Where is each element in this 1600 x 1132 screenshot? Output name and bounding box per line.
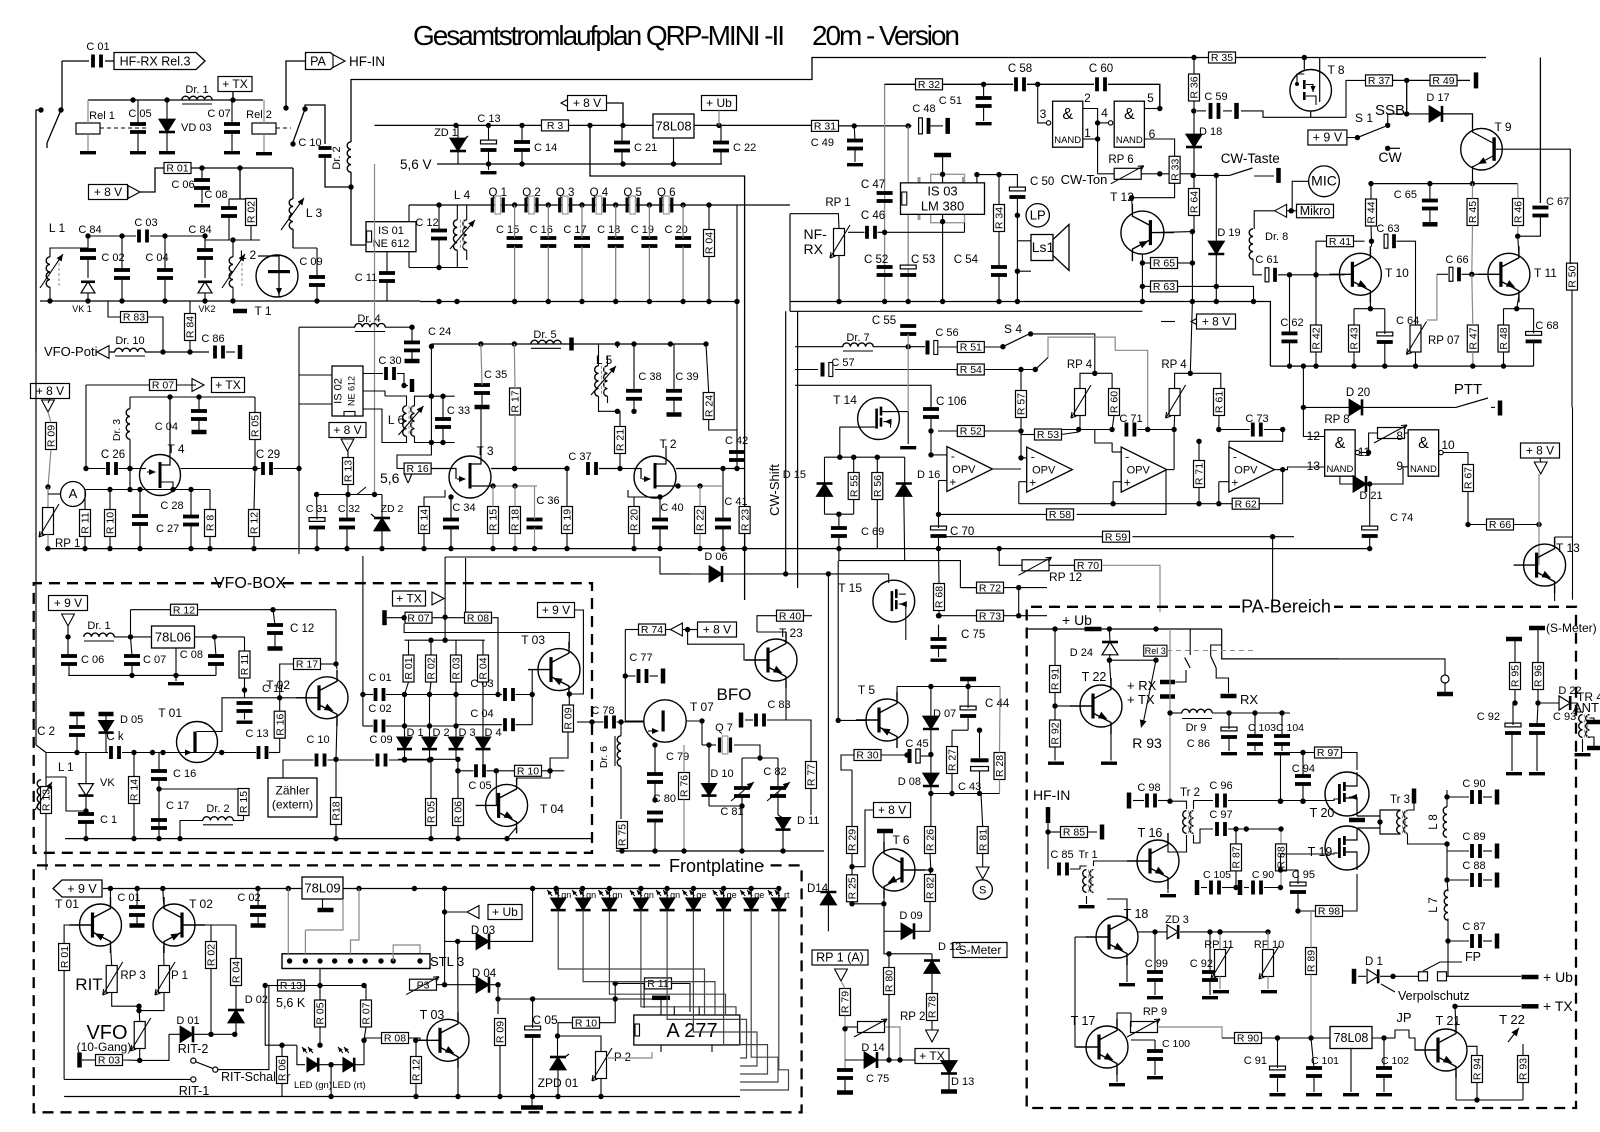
wire bias rail — [1371, 183, 1518, 185]
wire — [292, 168, 294, 199]
flag + 9 V — [1308, 130, 1347, 145]
svg-text:R 59: R 59 — [1105, 531, 1127, 543]
wire T03 base — [531, 670, 533, 725]
svg-text:C 51: C 51 — [939, 95, 962, 107]
ground — [1376, 1093, 1392, 1096]
resistor R 79 — [840, 989, 851, 1016]
svg-text:C 59: C 59 — [1204, 91, 1227, 103]
svg-text:R 07: R 07 — [152, 380, 174, 392]
svg-text:C 54: C 54 — [954, 254, 979, 266]
svg-text:L 1: L 1 — [58, 762, 74, 774]
svg-text:R 08: R 08 — [384, 1033, 406, 1045]
svg-text:+ 9 V: + 9 V — [54, 596, 82, 610]
svg-text:C 14: C 14 — [534, 142, 557, 154]
flag + 8 V — [89, 185, 128, 200]
svg-text:R 09: R 09 — [563, 707, 575, 729]
svg-text:Q 7: Q 7 — [715, 722, 733, 734]
svg-text:78L06: 78L06 — [155, 630, 191, 645]
nand gate 8 9 — [1408, 430, 1439, 476]
wire TX bus — [1270, 365, 1533, 367]
wire — [1229, 430, 1283, 459]
svg-text:L 4: L 4 — [454, 188, 471, 202]
ground — [1202, 996, 1218, 999]
svg-text:LM 380: LM 380 — [921, 199, 964, 214]
wire — [620, 767, 622, 820]
svg-text:C 100: C 100 — [1162, 1038, 1190, 1050]
potentiometer RP 3 — [106, 966, 117, 993]
arrow — [976, 867, 989, 879]
svg-text:+ 9 V: + 9 V — [1313, 131, 1343, 145]
svg-text:JP: JP — [1396, 1010, 1411, 1025]
wire signal — [491, 468, 567, 470]
wire — [925, 869, 931, 871]
svg-text:D 02: D 02 — [245, 994, 268, 1006]
wire — [1555, 536, 1573, 538]
ground — [80, 151, 96, 154]
ground — [1270, 1093, 1286, 1096]
svg-text:C 96: C 96 — [1209, 780, 1232, 792]
svg-text:R 13: R 13 — [343, 460, 355, 482]
flag + 9 V key — [538, 603, 575, 618]
wire bias — [404, 624, 569, 648]
svg-text:&: & — [1124, 106, 1135, 123]
tick — [521, 1105, 543, 1110]
resistor R 13 — [343, 458, 354, 485]
resistor R 35 — [1209, 52, 1236, 63]
wire — [1254, 211, 1274, 229]
svg-text:R 20: R 20 — [629, 509, 641, 531]
resistor R 37 — [1366, 75, 1393, 86]
resistor R 58 — [1047, 509, 1074, 520]
wire bus vfo — [65, 838, 592, 840]
svg-text:C 103: C 103 — [1248, 722, 1276, 734]
svg-text:Ls1: Ls1 — [1032, 239, 1055, 255]
wire — [319, 969, 321, 1000]
svg-text:C 75: C 75 — [961, 629, 985, 641]
wire bus fp — [64, 1096, 740, 1098]
wire — [129, 469, 131, 490]
resistor R 24 — [703, 393, 714, 420]
wire led route — [558, 911, 704, 1016]
svg-text:C 02: C 02 — [101, 252, 124, 264]
wire — [1219, 481, 1229, 483]
svg-text:R18: R18 — [331, 801, 343, 820]
wire vfo out — [362, 556, 364, 726]
svg-text:R 89: R 89 — [1306, 950, 1318, 972]
wire — [1397, 241, 1416, 324]
tick — [251, 923, 266, 928]
svg-text:R 10: R 10 — [575, 1017, 597, 1029]
wire — [1107, 899, 1127, 916]
tick — [1046, 807, 1051, 823]
svg-text:+ 8 V: + 8 V — [333, 423, 361, 437]
svg-text:C 105: C 105 — [1203, 869, 1231, 881]
meter A — [61, 482, 86, 507]
svg-text:9: 9 — [1396, 459, 1403, 473]
wire — [139, 993, 164, 1011]
resistor R 28 — [994, 753, 1005, 780]
wire — [1339, 659, 1445, 675]
resistor R 12 t4 — [249, 510, 260, 537]
svg-text:P3: P3 — [417, 980, 430, 992]
wire — [757, 632, 786, 639]
flag + Ub — [702, 96, 737, 111]
svg-text:C 61: C 61 — [1255, 254, 1278, 266]
wire — [1278, 274, 1345, 276]
wire tank — [430, 346, 432, 442]
wire — [444, 557, 446, 640]
wire — [625, 630, 644, 722]
wire — [66, 777, 86, 811]
tick — [941, 1089, 957, 1094]
wire left column — [36, 352, 46, 753]
node — [546, 202, 551, 207]
svg-text:R 98: R 98 — [1318, 906, 1340, 918]
opamp OPV 4 — [1229, 447, 1275, 492]
svg-text:R 09: R 09 — [46, 425, 58, 447]
wire osc — [46, 752, 108, 754]
wire +Ub rail — [1101, 628, 1222, 630]
node — [579, 202, 584, 207]
svg-text:C 90: C 90 — [1252, 869, 1274, 881]
svg-text:T 02: T 02 — [266, 678, 290, 692]
node — [85, 233, 90, 238]
svg-text:IS 02: IS 02 — [333, 378, 345, 404]
wire — [61, 61, 63, 110]
svg-text:R 16: R 16 — [274, 713, 286, 735]
svg-text:R 82: R 82 — [925, 877, 937, 899]
svg-text:78L08: 78L08 — [655, 119, 691, 134]
resistor R 70 — [1075, 560, 1102, 571]
svg-text:R 14: R 14 — [129, 779, 141, 801]
svg-text:Verpolschutz: Verpolschutz — [1398, 989, 1470, 1003]
resistor R18 — [331, 798, 342, 825]
svg-text:RP 07: RP 07 — [1428, 335, 1460, 347]
node — [478, 341, 483, 346]
svg-text:C 1: C 1 — [100, 814, 117, 826]
svg-text:R 07: R 07 — [407, 612, 429, 624]
svg-text:+ Ub: + Ub — [492, 905, 518, 919]
svg-text:VK 1: VK 1 — [72, 304, 92, 314]
wire — [1455, 1071, 1457, 1100]
svg-text:R 22: R 22 — [695, 509, 707, 531]
svg-text:C 68: C 68 — [1535, 320, 1558, 332]
resistor R 50 — [1567, 263, 1578, 290]
svg-text:L 7: L 7 — [1428, 897, 1440, 913]
svg-text:R 47: R 47 — [1468, 327, 1480, 349]
resistor R 07 t4 — [150, 380, 177, 391]
wire left column — [827, 574, 829, 891]
svg-text:T 07: T 07 — [690, 700, 714, 714]
dashed relay link — [100, 127, 148, 129]
wire — [688, 630, 755, 660]
ground — [1160, 894, 1176, 897]
node — [706, 202, 711, 207]
svg-text:RP 2: RP 2 — [900, 1011, 925, 1023]
resistor R 76 — [679, 773, 690, 800]
tick — [1349, 818, 1365, 823]
wire — [389, 759, 430, 761]
resistor R 09 key — [563, 705, 574, 732]
svg-text:R 56: R 56 — [872, 475, 884, 497]
svg-text:T 5: T 5 — [858, 683, 875, 697]
tick — [652, 996, 670, 1001]
svg-text:R 52: R 52 — [960, 426, 982, 438]
resistor R 29 — [847, 827, 858, 854]
svg-text:R 28: R 28 — [994, 755, 1006, 777]
svg-text:R 17: R 17 — [296, 659, 318, 671]
wire — [1167, 882, 1169, 893]
node — [981, 82, 986, 87]
tick — [238, 345, 243, 359]
relay Rel 3 — [1144, 645, 1167, 656]
svg-text:NE 612: NE 612 — [373, 238, 410, 250]
svg-text:T 13: T 13 — [1556, 541, 1580, 555]
switch PTT — [1456, 398, 1488, 407]
resistor R 46 — [1513, 199, 1524, 226]
svg-text:C 17: C 17 — [166, 800, 189, 812]
wire — [1447, 975, 1522, 977]
circle MIC — [1309, 166, 1340, 197]
svg-text:C 97: C 97 — [1209, 809, 1232, 821]
wire gray vertical 2 — [907, 126, 909, 302]
svg-text:R 03: R 03 — [451, 657, 463, 679]
resistor R 54 — [957, 364, 984, 375]
switch CW-Taste — [1192, 174, 1229, 176]
svg-text:R 3: R 3 — [547, 120, 564, 132]
flag + 8 V T13 — [1521, 443, 1560, 458]
svg-text:RP 4: RP 4 — [1067, 359, 1093, 371]
wire bus bfo — [616, 850, 824, 852]
flag + 8 V — [329, 423, 366, 438]
svg-text:LED (rt): LED (rt) — [332, 1080, 365, 1091]
resistor R 49 — [1430, 75, 1457, 86]
wire to D06 — [445, 557, 690, 574]
resistor R 14 — [129, 777, 140, 804]
svg-text:C 98: C 98 — [1137, 782, 1160, 794]
wire — [617, 411, 620, 426]
svg-text:VFO-BOX: VFO-BOX — [214, 575, 286, 592]
resistor R 47 — [1467, 325, 1478, 352]
wire — [1447, 941, 1449, 976]
resistor R 20 — [629, 507, 640, 534]
svg-text:C 32: C 32 — [338, 503, 360, 515]
ground — [224, 151, 240, 154]
wire — [232, 240, 234, 257]
tick — [233, 309, 247, 314]
svg-text:R 57: R 57 — [1016, 393, 1028, 415]
svg-text:C 66: C 66 — [1445, 254, 1468, 266]
tick — [667, 412, 682, 417]
wire — [304, 930, 306, 954]
wire — [736, 205, 738, 460]
svg-text:C 21: C 21 — [634, 142, 657, 154]
wire — [1173, 430, 1175, 470]
wire — [305, 105, 325, 144]
wire led route — [740, 911, 789, 1091]
svg-text:C 79: C 79 — [666, 751, 689, 763]
svg-text:C 06: C 06 — [171, 179, 194, 191]
node — [453, 123, 458, 128]
svg-text:R 29: R 29 — [847, 829, 859, 851]
svg-text:R 73: R 73 — [979, 610, 1001, 622]
svg-text:R 02: R 02 — [206, 944, 218, 966]
resistor R 67 — [1463, 465, 1474, 492]
resistor R 77 — [806, 762, 817, 789]
svg-text:D 05: D 05 — [120, 714, 143, 726]
wire — [397, 443, 431, 469]
wire — [393, 945, 420, 961]
svg-text:R 01: R 01 — [403, 657, 415, 679]
wire — [1027, 83, 1094, 85]
svg-text:C 99: C 99 — [1145, 958, 1168, 970]
wire — [1141, 254, 1143, 302]
wire — [884, 931, 932, 954]
IC 78L08 — [653, 114, 694, 138]
ground — [1147, 1076, 1163, 1079]
tick — [99, 712, 114, 717]
resistor R 08 fp — [382, 1033, 409, 1044]
svg-text:R 51: R 51 — [960, 342, 982, 354]
wire bus left — [45, 548, 299, 550]
wire — [480, 409, 482, 456]
svg-text:C 83: C 83 — [767, 699, 790, 711]
svg-text:T 22: T 22 — [1082, 670, 1107, 684]
ground — [931, 659, 947, 662]
svg-text:C 04: C 04 — [155, 421, 178, 433]
tick — [1587, 720, 1600, 725]
wire rail 8V right — [810, 124, 813, 127]
svg-text:8: 8 — [1396, 429, 1403, 443]
wire — [482, 695, 484, 738]
svg-text:NE 612: NE 612 — [347, 376, 357, 406]
tick — [1412, 789, 1417, 804]
svg-text:C 02: C 02 — [368, 703, 391, 715]
svg-text:1: 1 — [1084, 126, 1091, 140]
svg-text:C 85: C 85 — [1050, 849, 1073, 861]
svg-text:Zähler: Zähler — [275, 784, 309, 798]
wire — [218, 986, 269, 1070]
wire SSB path — [1031, 334, 1095, 373]
svg-text:C 36: C 36 — [536, 495, 559, 507]
resistor R 48 — [1498, 325, 1509, 352]
tick — [192, 430, 207, 435]
resistor R 82 — [925, 875, 936, 902]
wire — [1112, 451, 1121, 453]
ground — [1147, 996, 1163, 999]
tick — [1522, 1004, 1539, 1009]
svg-text:R 60: R 60 — [1109, 391, 1121, 413]
svg-text:C 15: C 15 — [496, 224, 519, 236]
wire — [283, 760, 314, 779]
svg-text:R 31: R 31 — [814, 121, 836, 133]
opamp OPV 3 — [1121, 447, 1167, 492]
node — [1427, 181, 1432, 186]
wire — [429, 695, 431, 738]
node — [486, 161, 491, 166]
svg-text:4: 4 — [1101, 106, 1108, 120]
svg-text:Gesamtstromlaufplan QRP-MINI -: Gesamtstromlaufplan QRP-MINI -II — [413, 20, 785, 51]
wire — [363, 694, 373, 696]
resistor R 17 — [294, 659, 321, 670]
wire bus — [40, 300, 420, 302]
wire — [1170, 712, 1182, 714]
svg-text:C 09: C 09 — [299, 256, 322, 268]
svg-text:NAND: NAND — [1116, 135, 1143, 146]
svg-text:A 277: A 277 — [666, 1020, 717, 1042]
ground — [488, 164, 490, 170]
svg-text:R 14: R 14 — [419, 509, 431, 531]
svg-text:C 18: C 18 — [597, 224, 620, 236]
ground — [194, 204, 210, 207]
svg-text:C 03: C 03 — [134, 217, 157, 229]
jumper JP — [1384, 1037, 1395, 1039]
svg-text:+ 8 V: + 8 V — [573, 96, 601, 110]
svg-text:P 1: P 1 — [171, 970, 188, 982]
wire rail — [68, 674, 216, 676]
svg-text:+ RX: + RX — [1127, 678, 1157, 693]
node — [680, 202, 685, 207]
resistor R 06 l — [453, 799, 464, 826]
wire — [742, 757, 760, 759]
varactor VK 1 — [81, 282, 95, 293]
wire ground bus — [299, 548, 790, 550]
ground — [1343, 1093, 1359, 1096]
svg-text:R 12: R 12 — [249, 512, 261, 534]
svg-text:C 12: C 12 — [290, 623, 314, 635]
wire — [181, 468, 261, 470]
wire — [112, 993, 139, 1007]
wire — [1350, 1049, 1352, 1093]
tick — [318, 908, 334, 913]
flag + TX — [218, 77, 252, 92]
svg-text:+ TX: + TX — [215, 378, 240, 392]
wire 5.6V feed — [374, 164, 376, 495]
svg-text:L 1: L 1 — [49, 221, 66, 235]
resistor R 15 — [488, 507, 499, 534]
resistor R 36 — [1189, 74, 1200, 101]
wire — [336, 664, 337, 669]
svg-text:T 14: T 14 — [833, 393, 857, 407]
svg-text:D 24: D 24 — [1070, 647, 1093, 659]
svg-text:C 50: C 50 — [1030, 176, 1054, 188]
wire — [790, 214, 839, 229]
svg-text:Tr 3: Tr 3 — [1390, 794, 1410, 806]
svg-text:R 36: R 36 — [1189, 76, 1201, 98]
wire rail 8V — [375, 124, 813, 126]
node — [1287, 363, 1292, 368]
wire — [1228, 800, 1324, 802]
wire — [1110, 727, 1112, 760]
wire — [1303, 407, 1324, 436]
svg-text:C 16: C 16 — [173, 768, 196, 780]
wire — [180, 821, 203, 839]
wire — [896, 687, 898, 699]
svg-text:ZD 2: ZD 2 — [381, 503, 404, 515]
wire row2 — [437, 984, 477, 986]
resistor R 11 t4 — [80, 510, 91, 537]
wire OPV4 out — [1275, 469, 1288, 471]
svg-text:R 17: R 17 — [510, 390, 522, 412]
svg-text:+ 8 V: + 8 V — [36, 384, 64, 398]
IC IS 03 LM 380 — [931, 174, 965, 222]
svg-text:C 91: C 91 — [1244, 1055, 1267, 1067]
resistor R 01 fp — [59, 944, 70, 971]
arrow HF-IN — [333, 55, 345, 68]
svg-text:C 63: C 63 — [1376, 223, 1399, 235]
resistor R 14 — [419, 507, 430, 534]
opamp OPV 1 — [947, 447, 993, 492]
